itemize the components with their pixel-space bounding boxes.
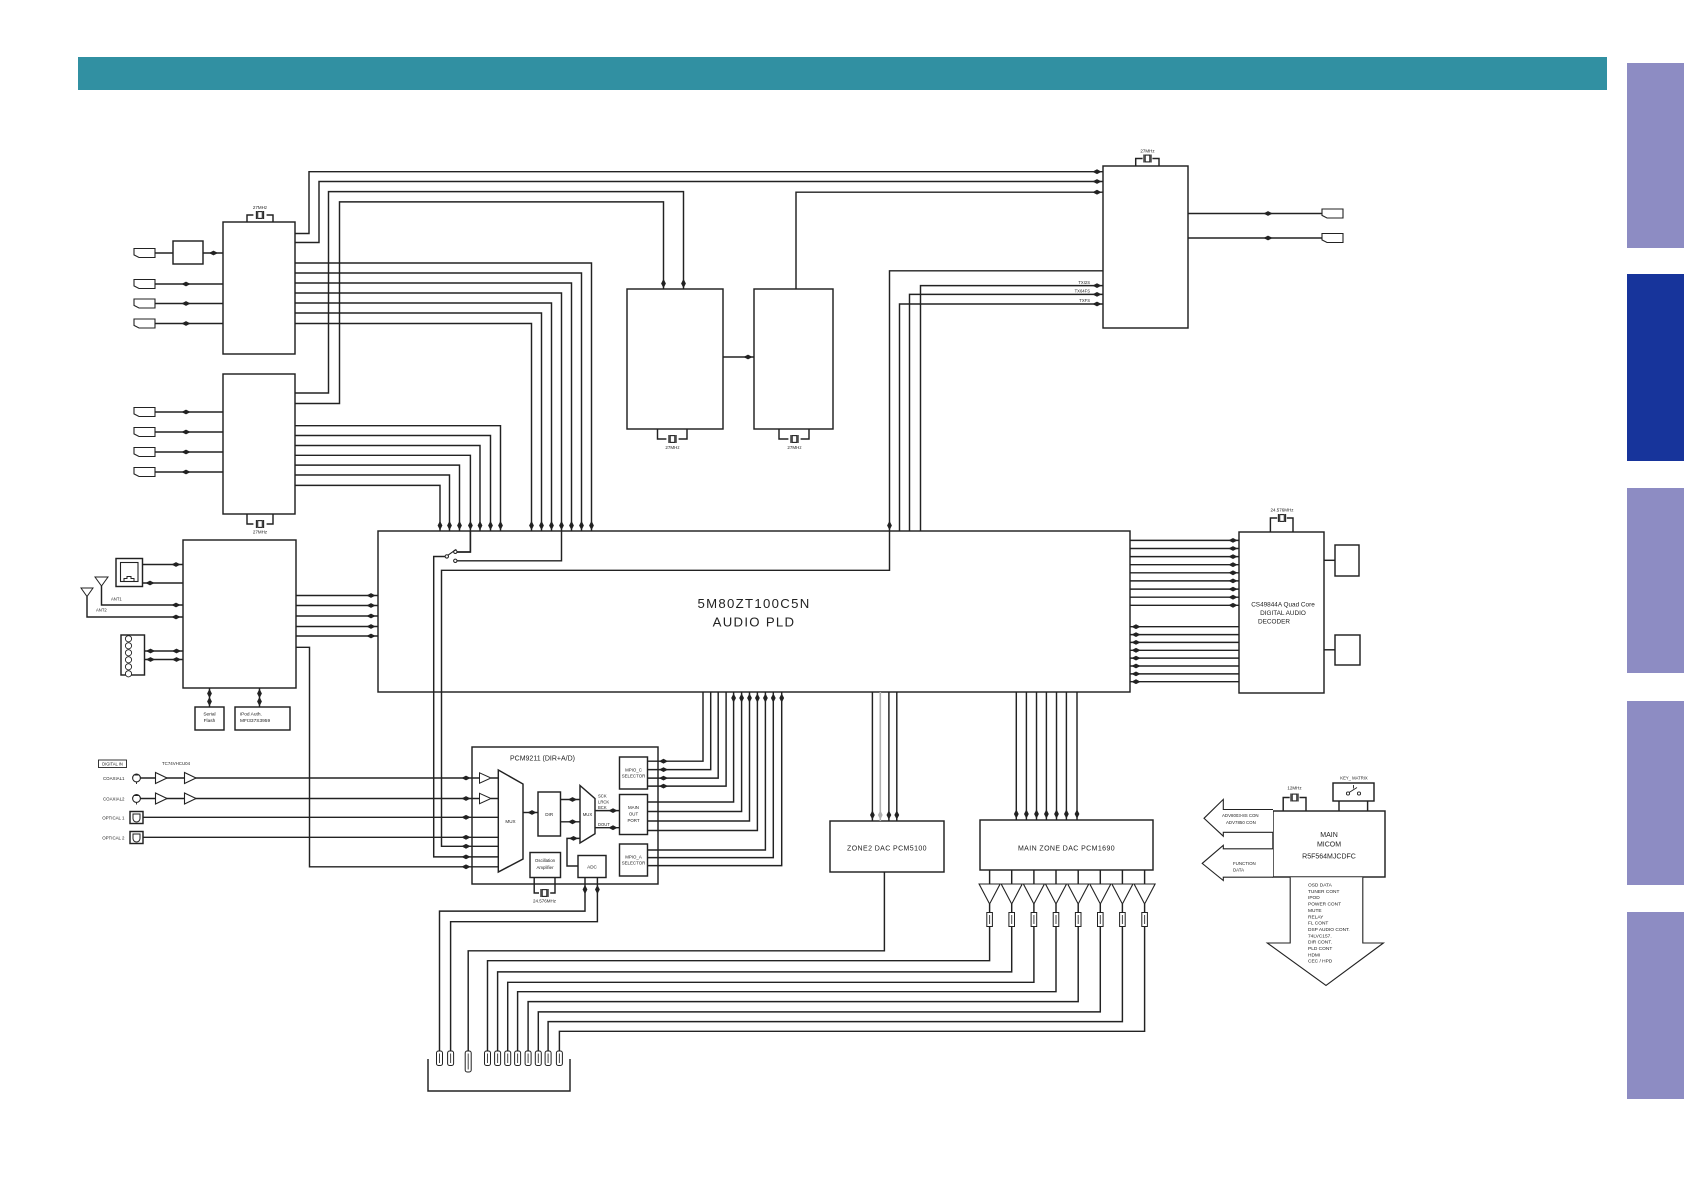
wire U8 to PLD ch7 [1130,673,1239,675]
svg-text:5M80ZT100C5N: 5M80ZT100C5N [697,596,810,611]
svg-text:DIR CONT.: DIR CONT. [1308,940,1332,946]
svg-text:AUDIO PLD: AUDIO PLD [713,615,796,630]
MAIN ZONE DAC PCM1690 U13 [980,820,1153,870]
wire U8 to PLD ch6 [1130,665,1239,667]
big down arrow (micom control signals) [1267,877,1383,985]
crystal X1 27MHz (U1 top) [247,215,273,222]
wire PLD to U8 ch7 [1130,588,1239,590]
HDMI input tag J6 [134,428,155,437]
MAIN OUT PORT block [620,795,648,835]
svg-text:FUNCTION: FUNCTION [1233,861,1256,866]
wire main out port to PLD y830.5 [648,692,758,831]
svg-text:Oscillation: Oscillation [535,858,556,863]
op-amp A2 [1011,870,1013,884]
wire J15 to U3 a [145,650,184,652]
HDMI input tag J3 [134,299,155,308]
bottom connector CN9 [535,1051,541,1066]
video processor block U5 [627,289,723,429]
main micom U14 R5F564MJCDFC [1273,811,1385,877]
wire PLD to U8 ch8 [1130,596,1239,598]
wire U2 bus to PLD pin x440 [295,485,440,531]
svg-text:24.576MHz: 24.576MHz [533,899,557,904]
MPIO_C selector block [620,757,648,789]
op-amp A7 [1121,870,1123,884]
HDMI input tag J8 [134,468,155,477]
wire J3 to U1 [155,303,223,305]
bottom connector CN4 [485,1051,491,1066]
svg-text:OSD DATA: OSD DATA [1308,883,1333,889]
wire U8 to J11 [1324,649,1335,651]
wire U1 out1 to U7 [295,172,1103,234]
svg-text:MUX: MUX [505,819,515,824]
svg-text:HDMI: HDMI [1308,952,1320,958]
wire PLD to ZONE2 DAC pin1 [871,692,873,821]
output jack P6 [1099,904,1101,913]
wire U7 to output tag J12 [1188,213,1322,215]
svg-text:OUT: OUT [629,812,639,817]
wire PLD to MAIN ZONE DAC pin1 [1015,692,1017,820]
crystal 24.576MHz [1278,514,1285,522]
wire PLD to ZONE2 DAC pin2 [879,692,881,821]
output jack P1 [989,904,991,913]
svg-text:DOUT: DOUT [598,822,610,827]
svg-text:PLD CONT: PLD CONT [1308,946,1332,952]
svg-text:ZONE2 DAC PCM5100: ZONE2 DAC PCM5100 [847,846,927,853]
sidebar tab 4 [1627,701,1684,885]
bottom connector CN2 [448,1051,454,1066]
bottom connector CN7 [515,1051,521,1066]
svg-text:Amplifier: Amplifier [536,865,554,870]
header teal bar [78,57,1607,90]
crystal 27MHz [669,435,676,443]
wire J14 to U3 [143,564,184,566]
wire U8 to PLD ch1 [1130,626,1239,628]
svg-text:27MHz: 27MHz [253,205,268,210]
oscillation amplifier block [530,853,561,878]
svg-text:MUTE: MUTE [1308,908,1322,914]
wire U7 to PLD pin (x889) routed inside PLD to PCM9211 [442,271,1104,847]
ethernet jack J14 [116,559,143,587]
antenna ANT1 [95,577,108,586]
svg-text:SCK: SCK [598,794,607,799]
bottom connector CN3 [465,1051,471,1072]
wire PLD to U8 ch5 [1130,572,1239,574]
wire U1 bus to PLD pin x541.5 [295,313,542,531]
DIR block [538,792,561,836]
wire ZONE2 DAC out to connector [468,872,884,1051]
wire U3 to PLD y616 [296,615,378,617]
crystal 27MHz [256,520,263,528]
op-amp A4 [1055,870,1057,884]
crystal 24.576MHz [541,889,548,897]
wire ADC out1 to connector [440,878,586,1052]
wire jack P8 to connector [559,927,1144,1052]
svg-text:DIGITAL AUDIO: DIGITAL AUDIO [1260,610,1306,617]
wire jack P6 to connector [538,927,1100,1052]
bottom connector CN11 [556,1051,562,1066]
svg-text:ADV8003-8S CON: ADV8003-8S CON [1222,813,1259,818]
switch SW1 inside PLD [457,531,470,552]
svg-text:ADC: ADC [587,865,597,870]
wire PLD to MAIN ZONE DAC pin7 [1076,692,1078,820]
DIGITAL IN label [99,760,127,768]
wire U8 to PLD ch4 [1130,649,1239,651]
svg-text:OPTICAL 1: OPTICAL 1 [102,815,125,820]
svg-text:ADV7850 CON: ADV7850 CON [1226,820,1256,825]
DSP U8 CS49844A [1239,532,1324,693]
op-amp A3 [1033,870,1035,884]
svg-text:27MHz: 27MHz [665,445,680,450]
wire jack P1 to connector [488,927,990,1052]
bottom connector CN1 [437,1051,443,1066]
wire MUX2 DOUT to main out port [595,827,620,829]
op-amp A1 [989,870,991,884]
wire PLD to U8 ch2 [1130,548,1239,550]
wire PLD to MPIO_C y786.1 [648,692,727,786]
wire jack P7 to connector [548,927,1122,1052]
svg-text:27MHz: 27MHz [787,445,802,450]
wire TXFS U7 to PLD [900,304,1104,531]
wire main out port to PLD y802 [648,692,734,802]
svg-text:TXI2S: TXI2S [1078,280,1090,285]
svg-text:LRCK: LRCK [598,800,609,805]
svg-text:MICOM: MICOM [1317,842,1341,849]
svg-text:ANT1: ANT1 [111,597,122,602]
output jack P2 [1011,904,1013,913]
op-amp A5 [1077,870,1079,884]
wire TXI2S U7 to PLD [921,286,1104,531]
svg-text:iPod Auth.: iPod Auth. [240,712,262,718]
wire PLD to MAIN ZONE DAC pin6 [1065,692,1067,820]
wire PLD to U8 ch4 [1130,564,1239,566]
svg-text:DATA: DATA [1233,868,1244,873]
wire J8 to U2 [155,471,223,473]
svg-text:ANT2: ANT2 [96,608,107,613]
wire U8 to PLD ch3 [1130,641,1239,643]
wire J2 to U1 [155,283,223,285]
svg-text:TC74VHCU04: TC74VHCU04 [162,761,191,766]
wire PLD to MPIO_C y761.2 [648,692,704,761]
wire U2 bus to PLD pin x480 [295,446,480,532]
wire PLD to ZONE2 DAC pin3 [888,692,890,821]
audio PLD U4 5M80ZT100C5N [378,531,1130,692]
wire U6 top to U7 [796,192,1103,289]
svg-text:KEY_ MATRIX: KEY_ MATRIX [1340,776,1368,781]
wire jack P4 to connector [518,927,1056,1052]
op-amp A6 [1099,870,1101,884]
svg-text:24.576MHz: 24.576MHz [1270,508,1294,513]
crystal X7 24.576MHz (PCM9211) [534,878,555,894]
svg-text:PCM9211 (DIR+A/D): PCM9211 (DIR+A/D) [510,756,575,763]
HDMI input tag J7 [134,448,155,457]
wire J7 to U2 [155,451,223,453]
svg-text:TX64FS: TX64FS [1075,289,1091,294]
sidebar tab 2 (active) [1627,274,1684,461]
svg-text:R5F564MJCDFC: R5F564MJCDFC [1302,854,1356,861]
svg-text:MUX: MUX [583,812,593,817]
wire opt2 to PCM9211 [143,836,472,838]
wire U3 to J14 return [143,582,184,584]
svg-text:DIGITAL IN: DIGITAL IN [102,762,123,767]
wire U2 out2 to U5 pin1 [295,202,664,404]
sidebar tab 3 [1627,488,1684,673]
output jack P5 [1077,904,1079,913]
sidebar tab 1 [1627,63,1684,248]
wire coax2 to PCM9211 [140,798,472,800]
svg-text:RELAY: RELAY [1308,914,1324,920]
svg-text:TXFS: TXFS [1079,298,1090,303]
wire U7 to output tag J13 [1188,237,1322,239]
wire U3 to PCM9211 [296,647,472,867]
wire PLD to MAIN ZONE DAC pin4 [1045,692,1047,820]
wire opt1 to PCM9211 [143,816,472,818]
wire U1 bus to PLD pin x581.5 [295,273,582,531]
wire PLD to U8 ch9 [1130,604,1239,606]
crystal 27MHz [256,211,263,219]
antenna ANT2 [81,588,93,597]
svg-text:27MHz: 27MHz [1140,149,1155,154]
svg-text:SELECTOR: SELECTOR [622,861,646,866]
op-amp A8 [1144,870,1146,884]
svg-text:DECODER: DECODER [1258,619,1290,626]
wire U1 out2 to U7 [295,182,1103,243]
output jack P8 [1144,904,1146,913]
svg-text:PORT: PORT [627,818,639,823]
wire U1 bus to PLD pin x561.5 [295,293,562,531]
HDMI transmitter block U7 (top-right) [1103,166,1188,328]
svg-text:DSP AUDIO CONT.: DSP AUDIO CONT. [1308,927,1350,933]
svg-text:27MHz: 27MHz [253,530,268,535]
svg-text:BCK: BCK [598,805,607,810]
wires key matrix to micom [1339,801,1368,811]
crystal 12MHz [1291,794,1298,802]
svg-text:MAIN: MAIN [1320,832,1338,839]
svg-text:SELECTOR: SELECTOR [622,774,646,779]
wire U2 out1 to U5 pin2 [295,192,684,393]
MUX1 trapezoid [498,770,523,872]
svg-text:MAIN ZONE DAC PCM1690: MAIN ZONE DAC PCM1690 [1018,846,1115,853]
crystal X5 27MHz (U7 top) [1136,159,1159,167]
svg-text:CEC / HPD: CEC / HPD [1308,959,1333,965]
crystal X3 27MHz (U5 bottom) [658,429,688,439]
crystal X2 27MHz (U2 bottom) [247,514,273,524]
crystal X8 12MHz (micom) [1283,798,1306,812]
wire PLD to U8 ch3 [1130,556,1239,558]
wire U1 bus to PLD pin x551.5 [295,303,552,531]
block arrow FUNCTION DATA [1202,845,1273,880]
svg-text:DIR: DIR [545,812,554,817]
wire PLD to ZONE2 DAC pin4 [896,692,898,821]
wire U1 bus to PLD pin x531.5 [295,324,532,532]
wire U8 to PLD ch8 [1130,681,1239,683]
HDMI input tag J1 [134,249,155,258]
wire PLD to MAIN ZONE DAC pin5 [1056,692,1058,820]
wire U2 bus to PLD pin x500.5 [295,426,501,531]
wire MPIO_A to PLD y865.6 [648,692,782,866]
crystal X4 27MHz (U6 bottom) [779,429,809,439]
wire J6 to U2 [155,431,223,433]
svg-text:MAIN: MAIN [628,805,639,810]
HDMI input tag J2 [134,280,155,289]
HDMI output tag J13 [1322,234,1343,243]
HDMI receiver block U2 (lower-left) [223,374,295,514]
network/iPod interface block U3 [183,540,296,688]
bottom connector CN5 [495,1051,501,1066]
svg-text:CS49844A Quad Core: CS49844A Quad Core [1251,602,1315,609]
wire PLD to MAIN ZONE DAC pin3 [1036,692,1038,820]
bottom connector CN8 [525,1051,531,1066]
wire U3 to serial flash [209,688,211,707]
DIN connector J15 [121,635,145,675]
wire PLD to MAIN ZONE DAC pin2 [1025,692,1027,820]
svg-text:MFI337S3959: MFI337S3959 [240,718,270,724]
output jack P7 [1121,904,1123,913]
wire U3 to PLD y636 [296,635,378,637]
wire PLD to MPIO_C y778.1 [648,692,719,778]
wire MUX2 SCK/LRCK/BCK to main out port [595,810,620,812]
wire PLD to U8 ch6 [1130,580,1239,582]
svg-text:Serial: Serial [203,712,215,718]
svg-text:IPOD: IPOD [1308,895,1320,901]
wire main out port to PLD y821 [648,692,750,821]
wire U3 to iPod auth [259,688,261,707]
svg-text:OPTICAL 2: OPTICAL 2 [102,835,125,840]
bottom connector CN6 [505,1051,511,1066]
iPod auth IC U10 MFI337S3959 [235,707,290,730]
wire jack P2 to connector [498,927,1012,1052]
svg-text:74LVC157.: 74LVC157. [1308,933,1332,939]
wire coax1 to PCM9211 [140,777,472,779]
connector strip bracket [428,1059,570,1091]
bottom connector CN10 [545,1051,551,1066]
wire U2 bus to PLD pin x449.5 [295,475,450,531]
svg-text:MPIO_A: MPIO_A [625,855,642,860]
wire J1-box-U1 [155,252,223,254]
svg-text:COAXIAL2: COAXIAL2 [103,796,125,801]
connector J10 (right of DSP) [1335,545,1359,576]
wire J5 to U2 [155,411,223,413]
HDMI output tag J12 [1322,209,1343,218]
HDMI receiver block U1 (top-left) [223,222,295,354]
wire ADC to MUX2 [567,838,580,866]
wire PLD to MPIO_C y769.6 [648,692,711,770]
output jack P3 [1033,904,1035,913]
connector J11 (right of DSP) [1335,635,1360,665]
wire jack P3 to connector [508,927,1034,1052]
wire U2 bus to PLD pin x490.5 [295,436,491,532]
MUX2 trapezoid [580,786,595,844]
block arrow ADV8003-8S CON / ADV7850 CON [1204,799,1273,836]
svg-text:FL CONT: FL CONT [1308,921,1328,927]
ZONE2 DAC PCM5100 U12 [830,821,944,872]
crystal 27MHz [791,435,798,443]
EDID box [173,241,203,264]
wire U2 bus to PLD pin x459.5 [295,465,460,531]
wire MPIO_A to PLD y850 [648,692,766,850]
internal wires to MUX1 [472,777,498,779]
svg-text:TUNER CONT: TUNER CONT [1308,889,1340,895]
wire MPIO_A to PLD y857.6 [648,692,774,858]
video processor block U6 [754,289,833,429]
wire ADC out2 to connector [451,878,598,1052]
wire U3 to PLD y626.5 [296,626,378,628]
MPIO_A selector block [620,844,648,876]
svg-text:COAXIAL1: COAXIAL1 [103,776,125,781]
wire U2 bus to PLD pin x470.4 [295,455,470,531]
wire J4 to U1 [155,323,223,325]
wire TX64FS U7 to PLD [910,294,1104,531]
wire J15 to U3 b [145,659,184,661]
wires DIR to MUX2 [561,799,581,801]
crystal X6 24.576MHz (U8 top) [1270,518,1293,532]
PCM9211 (DIR+A/D) U11 outer box [472,747,658,884]
wire U8 to J10 [1324,559,1335,561]
wire jack P5 to connector [528,927,1078,1052]
wire U3 to PLD y605.5 [296,605,378,607]
ADC block [578,856,606,878]
key matrix connector J16 [1333,783,1374,801]
wire U1 bus to PLD pin x571.5 [295,283,572,531]
wire U5 to U6 [723,356,754,358]
svg-text:12MHz: 12MHz [1287,786,1302,791]
wire U1 bus to PLD pin x591.5 [295,263,592,531]
crystal 27MHz [1144,155,1151,163]
wire MUX1 to DIR [523,812,538,814]
svg-text:MPIO_C: MPIO_C [625,768,642,773]
wire U8 to PLD ch2 [1130,634,1239,636]
wire U3 to PLD y595.5 [296,595,378,597]
svg-text:POWER CONT: POWER CONT [1308,902,1341,908]
wire PLD to U8 ch1 [1130,539,1239,541]
svg-text:Flash: Flash [204,718,216,724]
HDMI input tag J5 [134,408,155,417]
wire main out port to PLD y811.5 [648,692,742,812]
sidebar tab 5 [1627,912,1684,1099]
HDMI input tag J4 [134,319,155,328]
serial flash memory U9 [195,707,224,730]
wire U8 to PLD ch5 [1130,657,1239,659]
output jack P4 [1055,904,1057,913]
